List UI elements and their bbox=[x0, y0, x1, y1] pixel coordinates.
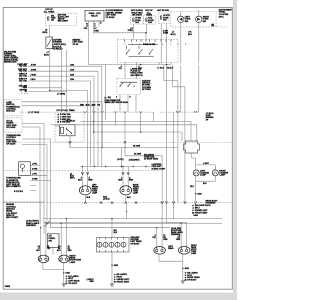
wire C2 long vertical B bbox=[39, 127, 41, 223]
wire U1 output horizontal bbox=[50, 89, 88, 91]
wire to G415 bbox=[182, 268, 184, 280]
wire drop x126 bbox=[126, 203, 128, 219]
splice S415 bbox=[182, 268, 184, 270]
connector arrow RF1 bbox=[122, 172, 124, 174]
svg-text:TURN RT FRLY CTRL: TURN RT FRLY CTRL bbox=[19, 79, 27, 83]
wire S1 to hazard switch 1 bbox=[124, 62, 126, 79]
wire BCM PARK SPLY horizontal bbox=[28, 70, 98, 72]
connector marker on cluster bbox=[211, 24, 214, 27]
box backup lamp switch bbox=[47, 234, 59, 248]
wire B5-B6 ground join bbox=[43, 268, 64, 270]
module BCM dashed top bbox=[22, 63, 29, 65]
wire F4 down bbox=[160, 24, 162, 64]
connector C2 dashed boundary bbox=[4, 118, 22, 133]
wire B8 feed A bbox=[180, 223, 182, 247]
connector C2 pin 1 bbox=[97, 242, 102, 247]
ground G415 bbox=[181, 281, 185, 283]
indicator lamp LEFT TURN bbox=[178, 16, 184, 22]
connector arrow x125 bbox=[124, 141, 126, 143]
wire BCM TURN RT F horizontal bbox=[28, 80, 90, 82]
wire F1 to DRL flasher bbox=[48, 26, 50, 38]
switch S1 turn/headlamp switch contacts bbox=[127, 44, 159, 56]
wire B7 feed A bbox=[156, 228, 158, 247]
wire bus y222 bbox=[44, 222, 182, 224]
fuse block dashed box 4 bbox=[159, 13, 170, 24]
wire right turn ind lower bbox=[198, 66, 200, 113]
connector arrow V6 bbox=[184, 201, 186, 203]
wire S2 drop b bbox=[127, 95, 129, 113]
svg-text:S415: S415 bbox=[185, 267, 189, 270]
wire drop x140 bbox=[140, 112, 142, 132]
wire C2 out B bbox=[22, 126, 40, 128]
wire stub row 6 bbox=[30, 190, 36, 192]
switch S1 contact at x=126.5 bbox=[126, 53, 127, 54]
svg-text:HAZARDSWITCH,IN STRGCOLUMNW/ T: HAZARDSWITCH,IN STRGCOLUMNW/ TURN bbox=[142, 79, 151, 91]
splice S202 bbox=[111, 264, 113, 266]
wire V2 corner to B8 bbox=[167, 222, 187, 224]
wire drop x102 bbox=[101, 102, 103, 148]
relay K1 TURN-LOW box bbox=[85, 10, 104, 21]
wire bus y227 bbox=[51, 227, 171, 229]
wire vertical x47 bbox=[46, 145, 48, 224]
underhood fuse block dashed box bbox=[55, 112, 84, 142]
junction mid h3 b bbox=[93, 131, 95, 133]
wire K1 pin B down bbox=[88, 21, 90, 65]
svg-text:DK GRN: DK GRN bbox=[133, 146, 141, 148]
wire K1 pin C to turn switch bbox=[94, 21, 147, 40]
svg-text:C100: C100 bbox=[70, 69, 74, 71]
switch S1 pin x=155 bbox=[154, 39, 156, 41]
wire relay out lower bbox=[69, 144, 71, 148]
junction LF turn bbox=[82, 166, 83, 167]
wire LR lamp feed B bbox=[45, 223, 47, 256]
wire F5 down bbox=[166, 24, 168, 64]
wire corner A to V5 bbox=[164, 65, 178, 81]
wire right bus V2 bbox=[166, 66, 168, 203]
wire vertical x66 to relay box bbox=[66, 50, 68, 112]
connector row C4 dashed bbox=[160, 111, 199, 113]
connector C2 pin 4 bbox=[115, 242, 120, 247]
wire flasher stub row 2 bbox=[30, 169, 43, 171]
junction U1 output bbox=[49, 90, 51, 92]
junction mid h3 a bbox=[140, 131, 142, 133]
wire ground bus to connector C2 bbox=[111, 219, 113, 238]
svg-text:C100: C100 bbox=[70, 79, 74, 81]
connector C3 body harness grommet bbox=[184, 141, 200, 153]
lamp B5 left rear stop/turn bbox=[38, 255, 49, 263]
svg-text:TURN LT FRLY CTRL: TURN LT FRLY CTRL bbox=[19, 74, 27, 78]
fuse F4 CLSTR bbox=[160, 15, 162, 19]
wire to license loop bbox=[192, 158, 196, 165]
wire LF turn drop bbox=[82, 167, 84, 186]
wire right bus V5 bbox=[177, 81, 179, 203]
switch S1 pin x=141 bbox=[140, 39, 142, 41]
fuse list bullets bbox=[57, 114, 59, 123]
wire BCM PARK SPLY vertical drop bbox=[97, 71, 99, 166]
svg-text:S408: S408 bbox=[197, 192, 201, 195]
splice S319 dot bbox=[47, 223, 49, 225]
junction B7 feed A bbox=[156, 227, 157, 228]
switch S2 contact a bbox=[119, 86, 120, 87]
wire turn module out B bbox=[22, 144, 47, 146]
wire left rear lamp feed bbox=[161, 156, 163, 247]
connector arrow rear feed bbox=[161, 201, 163, 203]
switch S1 pin x=131.3 bbox=[130, 39, 132, 41]
wire K1 pin D stub bbox=[98, 21, 100, 27]
ECM dashed drop bbox=[40, 203, 42, 230]
wire C2 long vertical A bbox=[43, 124, 45, 223]
svg-text:HOT AT ALL TIMES: HOT AT ALL TIMES bbox=[57, 109, 76, 112]
wire S1 right branch bbox=[158, 62, 160, 65]
wire U1 output down bbox=[49, 49, 51, 91]
instrument cluster dashed box bbox=[171, 12, 216, 27]
indicator lamp RIGHT TURN bbox=[196, 16, 202, 22]
wire corner B to V6 bbox=[173, 65, 185, 87]
wire flasher stub row 4 bbox=[30, 179, 50, 181]
wire flasher stub row 3 bbox=[30, 174, 47, 176]
wire C2 down bbox=[111, 252, 113, 265]
wire h y147 bbox=[70, 146, 178, 148]
ground list bullets right bbox=[192, 205, 194, 214]
wire license right branch lower bbox=[214, 176, 216, 181]
wire B8 ground drop bbox=[182, 254, 184, 268]
connector arrow LF2 bbox=[86, 172, 88, 174]
ground list bullets left bbox=[66, 275, 68, 284]
junction RF turn bbox=[122, 166, 123, 167]
junction ground bus bbox=[111, 218, 113, 220]
connector C1 arcs bbox=[84, 111, 143, 112]
wire left ind top stub bbox=[180, 12, 182, 17]
switch S1 pin x=171 bbox=[170, 39, 172, 41]
junction park bus x=94.5 bbox=[94, 166, 95, 167]
junction LR feed B bbox=[45, 222, 46, 223]
module BCM dashed boundary bbox=[21, 64, 23, 94]
wire to ground list bbox=[195, 204, 197, 210]
wire right bus V2 lower bbox=[166, 204, 168, 223]
wire drop x121 to park bus bbox=[120, 147, 122, 166]
wire turn module out A bbox=[22, 138, 51, 140]
lamp B8 right rear stop/turn (2nd) bbox=[178, 247, 190, 255]
connector arrow V2 bbox=[165, 201, 167, 203]
wire drop x153 bbox=[153, 112, 155, 121]
wire F3 down bbox=[146, 24, 148, 33]
wire turn module vertical A bbox=[50, 139, 52, 228]
svg-text:HOT IN RUN: HOT IN RUN bbox=[157, 10, 169, 12]
svg-text:(.7 BLU): (.7 BLU) bbox=[158, 68, 165, 70]
fuse F3 HAZ 20A bbox=[146, 18, 148, 22]
connector arrow LF1 bbox=[81, 172, 83, 174]
wire license left branch upper bbox=[195, 165, 197, 170]
svg-text:(.7 LT GRN): (.7 LT GRN) bbox=[28, 112, 39, 114]
wire BCM PARK LAMP vertical drop bbox=[101, 66, 103, 166]
svg-text:B 3 LT BLU: B 3 LT BLU bbox=[14, 191, 24, 193]
module BCM dashed boundary bbox=[21, 64, 23, 94]
connector C1 P6 marker bbox=[105, 97, 107, 99]
module BCM dashed bottom bbox=[22, 93, 29, 95]
wire LR lamp feed A bbox=[40, 228, 42, 256]
wire BCM PARK LAMP horizontal bbox=[28, 65, 102, 67]
IPC dashed extension bbox=[216, 26, 228, 28]
lamp B1 left front park/turn bbox=[79, 186, 91, 195]
junction y147 a bbox=[102, 147, 103, 148]
junction B8 feed A bbox=[180, 223, 181, 224]
wire into relay K2 bbox=[55, 125, 60, 127]
fuse F2 TURN 20A bbox=[133, 18, 135, 22]
fuse block dashed box (I/P fuse block) bbox=[46, 13, 77, 25]
svg-text:55528: 55528 bbox=[5, 286, 10, 288]
switch S1 pin x=149.4 bbox=[148, 39, 150, 41]
connector arrow V4 bbox=[172, 201, 174, 203]
svg-text:A .8 PPL: A .8 PPL bbox=[14, 185, 21, 188]
wire stub row 5 bbox=[30, 185, 36, 187]
wire license ground lower bbox=[195, 194, 197, 202]
switch S2 contact b bbox=[127, 86, 128, 87]
wire mid h3 bbox=[94, 131, 183, 133]
switch S1 pin x=166 bbox=[165, 39, 167, 41]
svg-text:DK GRN: DK GRN bbox=[134, 153, 142, 155]
connector arrow boundary x=136 bbox=[135, 202, 137, 204]
wire BCM TURN LT F horizontal bbox=[28, 75, 94, 77]
ground list bullets right2 bbox=[185, 272, 187, 281]
svg-text:S202: S202 bbox=[114, 265, 118, 267]
svg-text:.8 GRY: .8 GRY bbox=[203, 163, 210, 165]
lamp B6 right rear stop/turn bbox=[59, 255, 70, 263]
switch S1 pin x=146 bbox=[145, 39, 147, 41]
connector row C1 dashed line bbox=[20, 111, 155, 113]
wire right ind top stub bbox=[198, 10, 200, 16]
wire drop x105 bbox=[105, 65, 107, 121]
splice S408 bbox=[195, 193, 197, 195]
wire LF park long drop bbox=[87, 90, 89, 185]
turn signal switch dashed box bbox=[118, 39, 179, 62]
wire backup switch down bbox=[52, 247, 54, 254]
module BCM dashed bottom bbox=[22, 93, 29, 95]
flasher module U1 (DRL flasher) bbox=[46, 37, 53, 49]
wire lamp switch out A bbox=[22, 101, 102, 103]
switch S2 contact c bbox=[133, 86, 134, 87]
wire to G202 bbox=[111, 265, 113, 283]
svg-text:LBL: LBL bbox=[97, 104, 100, 106]
wire BCM IGN bbox=[28, 91, 67, 93]
lamp B4 right license bbox=[212, 170, 218, 176]
wire B8 feed B bbox=[186, 223, 188, 247]
wire right bus V4 bbox=[173, 112, 175, 202]
fuse block dashed box 2 bbox=[131, 16, 144, 24]
wire license ground upper bbox=[195, 181, 197, 194]
switch S2 hazard switch contacts bbox=[120, 82, 137, 86]
junction park bus x=121.4 bbox=[121, 166, 122, 167]
wire vertical x61 to relay box bbox=[61, 50, 63, 112]
switch S1 pin x=124.4 bbox=[123, 39, 125, 41]
wire license loop top bbox=[196, 165, 216, 170]
wire front park bus bbox=[81, 166, 151, 168]
wire into backup switch bbox=[43, 223, 45, 234]
svg-text:C100: C100 bbox=[70, 74, 74, 76]
junction on bus y64 a bbox=[140, 64, 142, 66]
wire RF turn drop bbox=[122, 167, 124, 186]
connector arrow G-lic bbox=[194, 201, 196, 203]
wire drop x115 bbox=[115, 112, 117, 125]
wire RR lamp feed A bbox=[60, 223, 62, 256]
connector arrow RF2 bbox=[127, 172, 129, 174]
junction LR feed A bbox=[40, 227, 41, 228]
wire lamp switch out B bbox=[22, 105, 94, 107]
wire B7 ground drop bbox=[158, 254, 160, 261]
junction x93/h1 bbox=[93, 121, 94, 122]
relay K2 DRL relay bbox=[60, 125, 76, 136]
junction RR feed A bbox=[61, 223, 62, 224]
switch S1 pin x=161 bbox=[160, 39, 162, 41]
wire drop x125 lower bbox=[124, 144, 126, 156]
connector C2 5-pin inline bbox=[97, 238, 130, 253]
splice S409 bbox=[63, 272, 65, 274]
svg-text:(.7 GRN): (.7 GRN) bbox=[57, 94, 65, 96]
ground list bullets center bbox=[114, 274, 116, 283]
svg-text:.8 PPL: .8 PPL bbox=[32, 174, 37, 176]
connector C2 pin 5 bbox=[121, 242, 126, 247]
connector C2 pin 2 bbox=[103, 242, 108, 247]
connector C2 pin 3 bbox=[109, 242, 114, 247]
splice S319 diagonal bbox=[45, 221, 51, 227]
wire RF park drop bbox=[127, 167, 129, 186]
body boundary dashed line bbox=[3, 202, 232, 204]
flasher box turn/hazard (engine compt) bbox=[19, 162, 31, 176]
wire bus y64 horizontal bbox=[89, 64, 172, 66]
svg-text:DRL RELAY: DRL RELAY bbox=[66, 119, 76, 122]
wire right turn ind down bbox=[198, 23, 200, 64]
wire RR lamp feed B bbox=[65, 219, 67, 256]
svg-text:3 GRN: 3 GRN bbox=[32, 169, 38, 171]
lamp B3 left license bbox=[193, 170, 199, 176]
connector arrow boundary x=101 bbox=[100, 202, 102, 204]
wire C3 down bbox=[191, 153, 193, 158]
wire mid h3 drop bbox=[181, 132, 183, 141]
wire F2 to turn switch bbox=[133, 24, 135, 39]
svg-text:.8 PPL: .8 PPL bbox=[32, 164, 37, 166]
lamp B7 left rear stop/turn (2nd) bbox=[154, 247, 166, 255]
wire bus y218 bbox=[43, 218, 222, 220]
wire S2 drop c bbox=[135, 95, 137, 113]
svg-text:G408: G408 bbox=[193, 214, 197, 217]
junction F3 / K1-C bbox=[145, 32, 147, 34]
wire left turn ind down bbox=[180, 23, 182, 64]
wire right bus V4 lower bbox=[173, 204, 175, 219]
wire flasher stub row 1 bbox=[30, 164, 40, 166]
svg-text:LAMPS ON/FLASH TOPASS, TURNSIG: LAMPS ON/FLASH TOPASS, TURNSIG SWITCH bbox=[131, 67, 144, 76]
wire drop x93 long bbox=[93, 106, 95, 132]
connector pins C4 bbox=[194, 111, 197, 112]
wire license left branch lower bbox=[195, 176, 197, 181]
wire S1 to hazard switch 2 bbox=[136, 62, 138, 79]
module BCM dashed top bbox=[22, 63, 29, 65]
connector arrow relay out bbox=[69, 141, 71, 143]
wire B6 ground drop bbox=[63, 263, 65, 273]
switch S1 contact at x=139 bbox=[138, 53, 139, 54]
junction on bus y64 b bbox=[166, 64, 168, 66]
svg-text:3 GRN: 3 GRN bbox=[32, 179, 38, 181]
ground G409 bbox=[62, 284, 66, 286]
wire mid h1 to connector C3 bbox=[81, 122, 192, 142]
wire ECM top line bbox=[3, 201, 44, 203]
wire BCM TURN RT F vertical drop bbox=[89, 81, 91, 167]
ground G202 bbox=[110, 284, 114, 286]
connector arrow boundary x=125.8 bbox=[125, 202, 127, 204]
wire bus y223 bbox=[47, 222, 222, 224]
wire drop x125 upper bbox=[124, 112, 126, 142]
scan margin bottom bbox=[0, 293, 237, 300]
switch S1 pin x=136.5 bbox=[136, 39, 138, 41]
module lamp switch dashed boundary bbox=[4, 100, 22, 116]
svg-text:(.8 BLK/WHT): (.8 BLK/WHT) bbox=[129, 160, 140, 162]
wire right bus V6 bbox=[184, 87, 186, 202]
scan margin right bbox=[233, 0, 237, 300]
front lamps dashed boundary bbox=[3, 169, 160, 171]
wire S1 stub right bbox=[170, 62, 172, 65]
svg-text:S409: S409 bbox=[66, 272, 70, 275]
wire to G409 bbox=[63, 273, 65, 284]
svg-text:(.8 PPL): (.8 PPL) bbox=[117, 159, 124, 161]
switch S1 contact at x=149.5 bbox=[149, 53, 150, 54]
page border frame bbox=[3, 8, 232, 290]
wire h y155 bbox=[125, 155, 162, 157]
fuse block dashed box 3 bbox=[144, 16, 156, 24]
wire K2 output down bbox=[69, 136, 71, 148]
junction park bus x=133.2 bbox=[133, 166, 134, 167]
junction park bus x=105.6 bbox=[105, 166, 106, 167]
connector arrow boundary x=85.3 bbox=[84, 202, 86, 204]
fuse F1 DRL 10A bbox=[48, 17, 50, 21]
wire S2 drop a bbox=[119, 95, 121, 113]
wire BCM AUX bbox=[28, 87, 62, 89]
wire C2 out A bbox=[22, 123, 44, 125]
junction park bus x=146 bbox=[145, 166, 146, 167]
connector arrow boundary x=112 bbox=[111, 202, 113, 204]
interior boundary dashed line bbox=[3, 141, 232, 143]
lamp B2 right front park/turn bbox=[120, 186, 132, 195]
junction RR feed B bbox=[66, 218, 67, 219]
wire B2 ground bbox=[125, 195, 127, 202]
wire B5 ground drop bbox=[42, 263, 44, 270]
wire B1 ground bbox=[84, 195, 86, 202]
hazard switch dashed box bbox=[117, 79, 141, 95]
svg-text:C100: C100 bbox=[70, 64, 74, 66]
junction misc bbox=[126, 211, 127, 212]
wire B7-B8 ground join bbox=[159, 260, 183, 262]
junction y147 b bbox=[124, 147, 125, 148]
wire left turn ind lower bbox=[180, 66, 182, 113]
wire license loop bottom bbox=[196, 180, 216, 182]
wire BCM TURN LT F vertical drop bbox=[93, 76, 95, 166]
wire mid h2 to connector C3 bbox=[51, 125, 197, 141]
